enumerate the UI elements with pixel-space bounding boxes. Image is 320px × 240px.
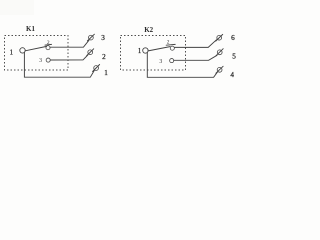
relay K1 contact-group dashed box	[5, 36, 69, 71]
terminal 5 circle	[217, 50, 222, 55]
K1 moving arm	[25, 46, 46, 50]
svg-text:K1: K1	[26, 25, 35, 33]
svg-text:3: 3	[39, 58, 42, 64]
K2 pole contact circle	[143, 48, 148, 53]
K2 top fixed contact circle	[170, 46, 174, 50]
terminal 4 slash	[216, 66, 223, 73]
svg-text:1: 1	[104, 69, 108, 77]
svg-text:1: 1	[10, 49, 13, 56]
svg-text:1: 1	[138, 48, 141, 55]
wire top contact to terminal 3	[50, 40, 89, 47]
terminal 4 circle	[217, 67, 222, 72]
K1 arm tip over contact	[45, 43, 52, 46]
terminal 3 circle	[89, 35, 94, 40]
K2 arm tip over contact	[166, 43, 175, 46]
K2 moving arm	[148, 47, 170, 51]
wire top contact to terminal 6	[174, 40, 216, 48]
terminal 2 circle	[88, 50, 93, 55]
terminal 1 slash	[93, 65, 100, 72]
K2 bottom fixed contact circle	[170, 59, 174, 63]
K1 top fixed contact circle	[46, 46, 50, 50]
terminal 5 slash	[216, 49, 223, 56]
relay K2 contact-group dashed box	[121, 36, 186, 71]
svg-text:3: 3	[159, 59, 162, 65]
terminal 1 circle	[94, 66, 99, 71]
wire bottom contact to terminal 5	[174, 55, 217, 60]
terminal 6 slash	[216, 34, 223, 41]
svg-text:4: 4	[230, 71, 234, 79]
wire K2 pole down and to terminal 4	[147, 52, 217, 77]
terminal 2 slash	[87, 49, 94, 56]
K1 pole contact circle	[20, 48, 25, 53]
svg-text:3: 3	[101, 34, 105, 42]
terminal 6 circle	[217, 35, 222, 40]
terminal 3 slash	[87, 34, 94, 41]
svg-text:K2: K2	[144, 26, 153, 34]
K1 bottom fixed contact circle	[46, 58, 50, 62]
wire pole down and to terminal 1	[24, 52, 94, 77]
svg-text:2: 2	[102, 53, 106, 61]
wire bottom contact to terminal 2	[50, 55, 88, 60]
svg-text:5: 5	[232, 52, 236, 60]
svg-text:2: 2	[167, 40, 170, 46]
svg-text:6: 6	[231, 34, 235, 42]
